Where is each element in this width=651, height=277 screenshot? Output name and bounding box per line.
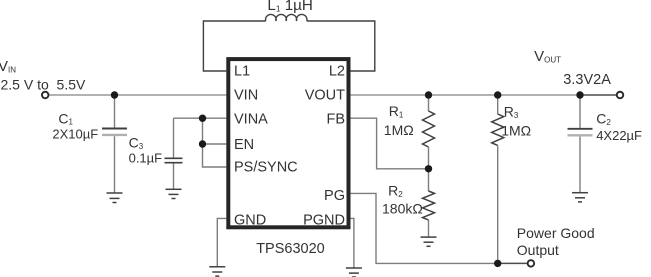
svg-text:Output: Output (517, 242, 559, 258)
svg-text:0.1µF: 0.1µF (129, 151, 163, 166)
svg-text:R2: R2 (388, 183, 403, 199)
svg-text:4X22µF: 4X22µF (596, 128, 642, 143)
svg-text:VOUT: VOUT (534, 48, 561, 65)
svg-text:L1 1µH: L1 1µH (267, 0, 312, 14)
svg-text:R3: R3 (504, 104, 519, 120)
svg-text:C1: C1 (58, 110, 73, 126)
svg-text:180kΩ: 180kΩ (382, 201, 423, 217)
svg-text:1MΩ: 1MΩ (384, 122, 414, 138)
svg-text:PGND: PGND (303, 213, 345, 229)
svg-text:TPS63020: TPS63020 (256, 241, 325, 257)
svg-text:R1: R1 (389, 103, 404, 119)
svg-text:2.5 V to 5.5V: 2.5 V to 5.5V (1, 77, 86, 93)
svg-text:VIN: VIN (0, 58, 16, 75)
svg-text:C3: C3 (129, 135, 144, 151)
svg-text:C2: C2 (596, 111, 611, 127)
svg-text:2X10µF: 2X10µF (52, 127, 98, 142)
svg-text:L2: L2 (329, 64, 345, 80)
svg-text:Power Good: Power Good (517, 225, 595, 241)
svg-text:VINA: VINA (234, 112, 268, 128)
svg-text:PG: PG (324, 188, 345, 204)
svg-text:VOUT: VOUT (305, 88, 345, 104)
svg-text:L1: L1 (234, 64, 250, 80)
svg-text:PS/SYNC: PS/SYNC (234, 160, 298, 176)
svg-text:EN: EN (234, 137, 254, 153)
svg-text:FB: FB (326, 112, 345, 128)
svg-text:1MΩ: 1MΩ (501, 122, 531, 138)
svg-text:3.3V2A: 3.3V2A (563, 72, 611, 88)
svg-text:VIN: VIN (234, 88, 258, 104)
svg-text:GND: GND (234, 213, 266, 229)
